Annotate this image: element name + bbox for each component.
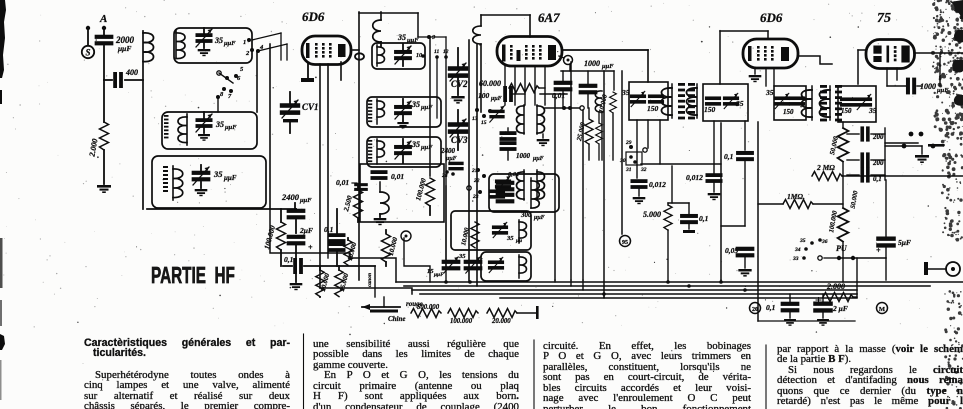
capacitor 400 uuF: [104, 79, 112, 81]
resistor 25.000: [588, 108, 590, 118]
svg-text:CV1: CV1: [302, 102, 319, 112]
ground: [97, 185, 111, 193]
switch contacts 21 23: [476, 168, 480, 172]
svg-text:0,01: 0,01: [336, 178, 349, 187]
trimmer 35: [774, 96, 790, 105]
oscillator coil box B: [451, 211, 531, 250]
svg-text:1000: 1000: [920, 82, 936, 91]
svg-text:100.000: 100.000: [828, 210, 839, 234]
coil box OC (bottom): [152, 156, 266, 208]
wire: [468, 40, 470, 282]
svg-text:0,1: 0,1: [324, 225, 333, 234]
svg-text:95: 95: [622, 240, 628, 246]
trimmer 35: [723, 96, 739, 105]
svg-text:100: 100: [478, 91, 490, 100]
capacitor 2uF electrolytic: [287, 235, 306, 246]
svg-text:+: +: [876, 246, 881, 255]
bus wire 4: [420, 293, 857, 295]
svg-text:Chine: Chine: [388, 315, 406, 323]
svg-text:2.000: 2.000: [87, 138, 99, 158]
svg-text:35: 35: [868, 106, 877, 115]
resistor 15.000: [338, 266, 340, 270]
terminal circle M: [877, 303, 888, 314]
wires IF1: [603, 71, 605, 297]
wire tube1 plate stub: [353, 49, 359, 51]
switch 29 30 31 32: [629, 145, 633, 149]
cathode ground: [754, 68, 756, 74]
variable capacitor CV2: [457, 48, 459, 66]
wire: [327, 64, 329, 253]
svg-text:1000: 1000: [516, 152, 531, 160]
wire ladder rail: [884, 128, 886, 180]
svg-text:35: 35: [411, 140, 420, 149]
trimmer: [489, 110, 504, 119]
svg-text:0,01: 0,01: [552, 91, 565, 100]
svg-text:μμF: μμF: [406, 37, 419, 44]
resistor 2.500: [357, 184, 359, 190]
svg-text:μμF: μμF: [420, 104, 433, 111]
tube pins: [765, 68, 767, 86]
oscillator transformer secondary: [537, 106, 545, 133]
coil box GO (middle): [162, 112, 257, 149]
IF1 secondary coil: [696, 84, 698, 118]
svg-text:μμF: μμF: [936, 87, 949, 94]
oscillator transformer 2: [517, 172, 525, 199]
article text column 4: [777, 344, 963, 407]
ground: [921, 146, 923, 154]
capacitor 150: [789, 96, 805, 105]
IF1 primary coil: [671, 84, 673, 118]
svg-text:15: 15: [481, 120, 487, 126]
svg-text:0,1: 0,1: [284, 255, 293, 264]
svg-text:150: 150: [647, 104, 659, 113]
switch contact 9: [418, 36, 427, 38]
svg-text:20: 20: [752, 307, 758, 313]
oscillator transformer primary: [517, 106, 525, 133]
svg-text:7: 7: [228, 93, 232, 100]
chassis connection arrow: [362, 306, 400, 308]
terminal circle 20: [750, 303, 761, 314]
grid wire: [719, 31, 721, 84]
svg-text:2: 2: [245, 50, 250, 57]
svg-text:150: 150: [783, 108, 794, 116]
resistor 10.000: [347, 238, 349, 240]
svg-text:μμF: μμF: [532, 156, 544, 162]
capacitor 200: [847, 159, 859, 161]
oscillator coil box 3: [367, 137, 441, 167]
wire: [939, 55, 941, 86]
switch wires to grid: [252, 33, 281, 40]
svg-text:35: 35: [506, 235, 514, 242]
svg-text:μμF: μμF: [490, 96, 502, 102]
capacitor 0,1: [847, 174, 859, 176]
svg-text:150: 150: [841, 107, 852, 115]
capacitor 1000 uuF body: [587, 71, 589, 84]
trimmer capacitor 35 uuF: [394, 145, 412, 155]
IF2 primary coil: [811, 86, 813, 120]
svg-text:μμF: μμF: [445, 156, 457, 162]
resistor 10.000: [610, 92, 617, 113]
svg-text:μμF: μμF: [433, 272, 444, 278]
oscillator coil box 2: [367, 97, 441, 127]
tube cathode ground: [307, 64, 309, 78]
tube envelope: [743, 39, 798, 68]
trimmer 35: [495, 179, 511, 188]
svg-text:75: 75: [877, 11, 891, 26]
svg-text:35: 35: [411, 100, 420, 109]
tube electrodes: [306, 43, 310, 58]
wire: [885, 258, 887, 280]
grid wire: [858, 49, 866, 51]
svg-text:1000: 1000: [584, 59, 600, 68]
svg-text:CV3: CV3: [451, 135, 468, 145]
resistor 10.000: [382, 234, 391, 262]
capacitor 200: [847, 133, 859, 135]
svg-text:400: 400: [125, 68, 138, 77]
oscillator coil box 1: [372, 43, 425, 69]
capacitor 0,02: [562, 71, 564, 81]
wire: [340, 62, 342, 80]
svg-text:0,1: 0,1: [699, 214, 708, 223]
IF1 box left: [629, 82, 668, 120]
wire: [641, 163, 721, 165]
resistor 100.000: [429, 37, 431, 176]
HF choke coil: [595, 91, 602, 112]
svg-text:μμF: μμF: [117, 44, 131, 53]
grid cap terminal: [564, 56, 573, 65]
trimmer 35: [630, 94, 646, 103]
svg-text:1MΩ.: 1MΩ.: [787, 192, 805, 201]
capacitor 0,012: [631, 179, 648, 189]
switch contacts 1 2 4: [247, 38, 251, 42]
IF2 secondary coil: [829, 86, 831, 120]
svg-text:32: 32: [640, 167, 647, 173]
svg-text:μμF: μμF: [224, 124, 237, 131]
svg-text:5: 5: [240, 66, 244, 73]
svg-text:μμF: μμF: [420, 144, 433, 151]
padding coil: [379, 182, 381, 192]
svg-text:12: 12: [443, 49, 449, 55]
svg-text:2400: 2400: [440, 147, 456, 155]
svg-text:8: 8: [220, 91, 224, 98]
tube pins: [504, 66, 506, 105]
capacitor 150: [840, 97, 856, 106]
svg-text:50.000: 50.000: [829, 135, 840, 155]
svg-text:μμF: μμF: [533, 215, 545, 221]
resistor 100.000: [448, 309, 478, 318]
svg-text:6A7: 6A7: [538, 10, 560, 25]
capacitor 0,1: [680, 214, 698, 224]
svg-text:35: 35: [214, 36, 223, 45]
IF1 box right: [703, 84, 748, 121]
svg-text:μμF: μμF: [223, 174, 237, 182]
ground: [542, 134, 544, 138]
resistor 2.000: [103, 80, 105, 122]
trimmer capacitor 35 uuF: [394, 105, 412, 115]
svg-text:25.000: 25.000: [576, 121, 587, 142]
switch contacts upper: [909, 132, 914, 137]
svg-text:22: 22: [473, 178, 480, 184]
svg-text:200: 200: [872, 159, 884, 167]
svg-text:35: 35: [765, 88, 774, 97]
wire top to oscillator: [358, 12, 360, 280]
wire: [256, 52, 258, 112]
svg-text:0,1: 0,1: [724, 152, 733, 161]
junction dots: [562, 106, 566, 110]
svg-text:35: 35: [213, 169, 223, 179]
wire to bus: [320, 288, 412, 294]
article text column 1: [84, 338, 290, 409]
svg-text:31: 31: [625, 167, 632, 173]
svg-text:+: +: [308, 243, 313, 252]
svg-text:10.000: 10.000: [388, 236, 400, 256]
svg-text:2.500: 2.500: [342, 194, 354, 213]
IF2 box left: [774, 86, 806, 120]
tube envelope: [866, 40, 915, 69]
wires to bus: [404, 238, 430, 282]
svg-text:33: 33: [792, 256, 799, 262]
coil winding: [175, 30, 177, 58]
wire long vertical: [269, 44, 271, 209]
svg-text:0,012: 0,012: [649, 180, 666, 189]
coil box PO (top): [174, 28, 252, 63]
svg-text:200: 200: [872, 133, 884, 141]
bus wire 2: [404, 285, 930, 287]
capacitor 150: [705, 96, 721, 105]
wire: [103, 28, 105, 35]
svg-text:M: M: [879, 306, 885, 313]
plate wire: [798, 56, 832, 64]
svg-text:35: 35: [397, 33, 406, 42]
svg-text:μμF: μμF: [601, 63, 614, 70]
bus wire 5: [500, 297, 857, 299]
capacitor 0,1: [283, 265, 292, 267]
antenna coil L1: [142, 31, 144, 209]
svg-text:μμF: μμF: [299, 197, 312, 204]
svg-text:50.000: 50.000: [850, 190, 860, 210]
wire: [319, 64, 321, 288]
wire: [842, 175, 963, 177]
capacitor stack: [489, 189, 505, 198]
oscillator coil box (lower left set): [489, 174, 559, 212]
coil winding: [172, 166, 174, 200]
svg-text:2 μF: 2 μF: [832, 304, 848, 313]
svg-text:2μF: 2μF: [299, 226, 313, 235]
resistor 100.000: [280, 209, 282, 222]
capacitor 0,012 right: [706, 173, 723, 183]
svg-text:canon: canon: [367, 273, 373, 287]
svg-text:20.000: 20.000: [491, 318, 511, 325]
tube 6A7 envelope: [497, 37, 562, 67]
wire: [476, 44, 478, 286]
oscillator padding box: [360, 164, 444, 222]
svg-text:6D6: 6D6: [302, 9, 325, 24]
svg-text:100.000: 100.000: [450, 318, 473, 325]
coil winding: [186, 114, 188, 145]
svg-text:35: 35: [215, 120, 224, 129]
junction dots bus: [444, 280, 448, 284]
plate wire: [914, 52, 963, 54]
svg-text:μμ: μμ: [515, 238, 522, 244]
svg-text:21: 21: [471, 168, 478, 174]
capacitor 1000 uuF stack: [500, 131, 517, 141]
capacitor 0,01: [371, 170, 388, 180]
bus wire 1: [396, 281, 963, 283]
capacitor 2000 uuF antenna coupling: [95, 35, 114, 46]
resistor 30.000: [596, 123, 603, 144]
svg-text:6: 6: [237, 75, 241, 82]
trimmer capacitor 35 uuF: [203, 28, 205, 33]
wire staircase to bus: [270, 209, 396, 282]
svg-text:6D6: 6D6: [760, 10, 783, 25]
wire: [103, 46, 105, 80]
IF2 box right: [838, 86, 876, 122]
tube electrodes: [748, 46, 752, 61]
ground: [295, 266, 297, 282]
capacitor 5uF: [885, 180, 887, 237]
article text column 3: [543, 341, 751, 409]
svg-text:2400: 2400: [281, 192, 300, 202]
wire top rail: [359, 12, 418, 14]
svg-text:5μF: 5μF: [898, 238, 911, 247]
svg-text:μμF: μμF: [223, 40, 236, 47]
wire: [87, 28, 89, 46]
capacitor 150: [648, 94, 664, 103]
svg-text:30: 30: [619, 158, 626, 164]
bus stubs: [554, 280, 556, 282]
core: [820, 85, 827, 121]
switch contacts 13 15: [475, 108, 479, 112]
trimmer capacitor 35 uuF: [394, 50, 412, 60]
oscillator coil box C: [481, 252, 531, 281]
grid wire: [481, 14, 530, 16]
column rule 3: [765, 345, 767, 409]
svg-text:0,012: 0,012: [686, 173, 703, 182]
wire bottom of coil boxes: [147, 208, 296, 210]
label PARTIE HF: [151, 262, 235, 289]
svg-text:11: 11: [434, 49, 439, 55]
resistor 10.000 lower: [319, 266, 321, 270]
svg-text:S: S: [85, 48, 90, 58]
trimmer 35: [856, 97, 872, 106]
svg-text:10: 10: [416, 53, 422, 59]
coupling coil: [380, 12, 382, 20]
svg-text:35: 35: [799, 238, 806, 244]
svg-text:PU: PU: [836, 244, 848, 253]
svg-text:34: 34: [794, 247, 801, 253]
variable capacitor CV1: [289, 92, 291, 104]
trimmer capacitor 35 uuF: [203, 112, 205, 118]
svg-text:35: 35: [735, 99, 744, 108]
svg-text:0,01: 0,01: [391, 172, 404, 181]
band switch arm: [217, 71, 221, 75]
terminal circle: [401, 231, 411, 241]
svg-text:0,1: 0,1: [766, 303, 775, 312]
wire long vertical: [757, 122, 759, 321]
svg-text:2.000: 2.000: [826, 282, 845, 291]
svg-text:500.000: 500.000: [417, 304, 440, 311]
svg-text:CV2: CV2: [451, 79, 468, 89]
output jack: [924, 262, 928, 275]
wire: [554, 94, 556, 280]
resistor 10.000 padding: [471, 222, 479, 248]
svg-text:10.000: 10.000: [320, 272, 332, 292]
svg-text:23: 23: [472, 194, 479, 200]
column rule 1: [303, 334, 305, 409]
svg-text:150: 150: [704, 105, 716, 114]
capacitor 2uF output: [813, 301, 833, 312]
wire: [445, 186, 447, 266]
6A7 plate wire to IF1: [562, 49, 648, 51]
trimmer capacitor 35 uuF: [200, 165, 202, 171]
svg-text:1: 1: [243, 39, 246, 46]
tube 6D6 envelope: [302, 36, 351, 65]
svg-text:60.000: 60.000: [479, 79, 501, 88]
column rule 2: [533, 340, 535, 409]
core: [678, 83, 685, 119]
capacitor 1000 uuF: [886, 68, 888, 86]
svg-text:A: A: [99, 13, 107, 25]
bus wire 3: [412, 289, 857, 291]
svg-text:5.000: 5.000: [643, 210, 661, 219]
svg-text:36: 36: [821, 239, 828, 245]
resistor 100.000 vertical: [842, 176, 844, 208]
wire: [758, 320, 855, 322]
svg-text:35: 35: [458, 253, 466, 260]
svg-text:100.000: 100.000: [414, 177, 428, 202]
node S earth terminal: [82, 46, 94, 58]
svg-text:15.000: 15.000: [339, 272, 351, 292]
tube electrodes: [873, 46, 881, 54]
article text column 2: [313, 339, 519, 409]
scan artifact: left edge black bar: [0, 0, 6, 78]
wire: [374, 266, 376, 297]
small loop on plate line: [355, 53, 364, 59]
svg-text:13: 13: [472, 116, 478, 122]
tube electrodes: [502, 45, 506, 62]
resistor 20.000: [487, 309, 517, 318]
resistor 50.000: [842, 122, 844, 128]
terminal 95: [620, 236, 631, 247]
grid coupling coil: [480, 15, 482, 26]
svg-text:29: 29: [625, 140, 632, 146]
variable capacitor CV3: [448, 122, 468, 134]
